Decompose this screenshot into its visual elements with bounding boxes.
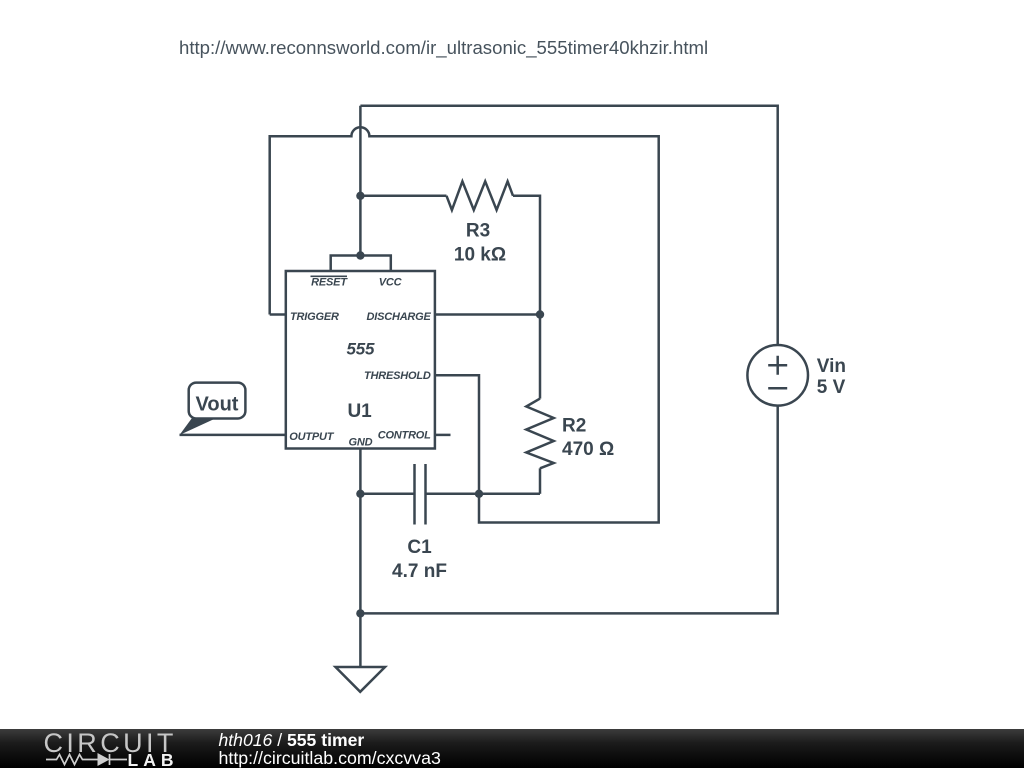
node A: R3 tap on VCC rail [356,192,364,200]
wire reset-vcc tee bar [331,256,391,272]
svg-text:hth016 / 555 timer: hth016 / 555 timer [219,730,365,750]
resistor R2 [526,399,553,469]
svg-text:LAB: LAB [128,750,179,768]
node B: reset-vcc tee [356,251,364,259]
wire gnd pin down [359,449,362,668]
wire C1 right lead [426,493,541,496]
wire discharge stub [435,313,540,316]
wire output to Vout [180,434,286,437]
wire C1 left lead [360,493,414,496]
wire R3 left lead from node A [360,195,446,198]
Vout flag [180,383,246,435]
logo resistor-diode glyph [46,754,127,765]
footer bar [0,729,1024,768]
capacitor C1 [415,464,426,525]
voltage source Vin [747,345,808,406]
node D: gnd / C1 left [356,490,364,498]
node E: threshold / C1 right [475,490,483,498]
wire R2 top lead [539,315,542,399]
wire R2 bottom lead [539,468,542,494]
resistor R3 [447,181,514,210]
wire threshold stub [435,375,479,494]
wire trigger stub [270,313,286,316]
node junction dots [356,192,544,618]
svg-text:http://circuitlab.com/cxcvva3: http://circuitlab.com/cxcvva3 [219,748,441,768]
wire control stub [435,434,451,437]
wire main vertical VCC rail [359,106,362,256]
IC U1 pin labels [289,276,431,448]
node C: discharge / R3 / R2 [536,310,544,318]
wire trigger-threshold loop with hop [270,127,659,522]
wire R3 right lead down to discharge node [513,196,540,315]
wire top supply: VCC node to source plus [360,106,777,345]
wire bottom rail to source minus [360,406,777,614]
ground [336,667,386,692]
IC U1 box [286,271,435,449]
node F: gnd rail bottom [356,609,364,617]
